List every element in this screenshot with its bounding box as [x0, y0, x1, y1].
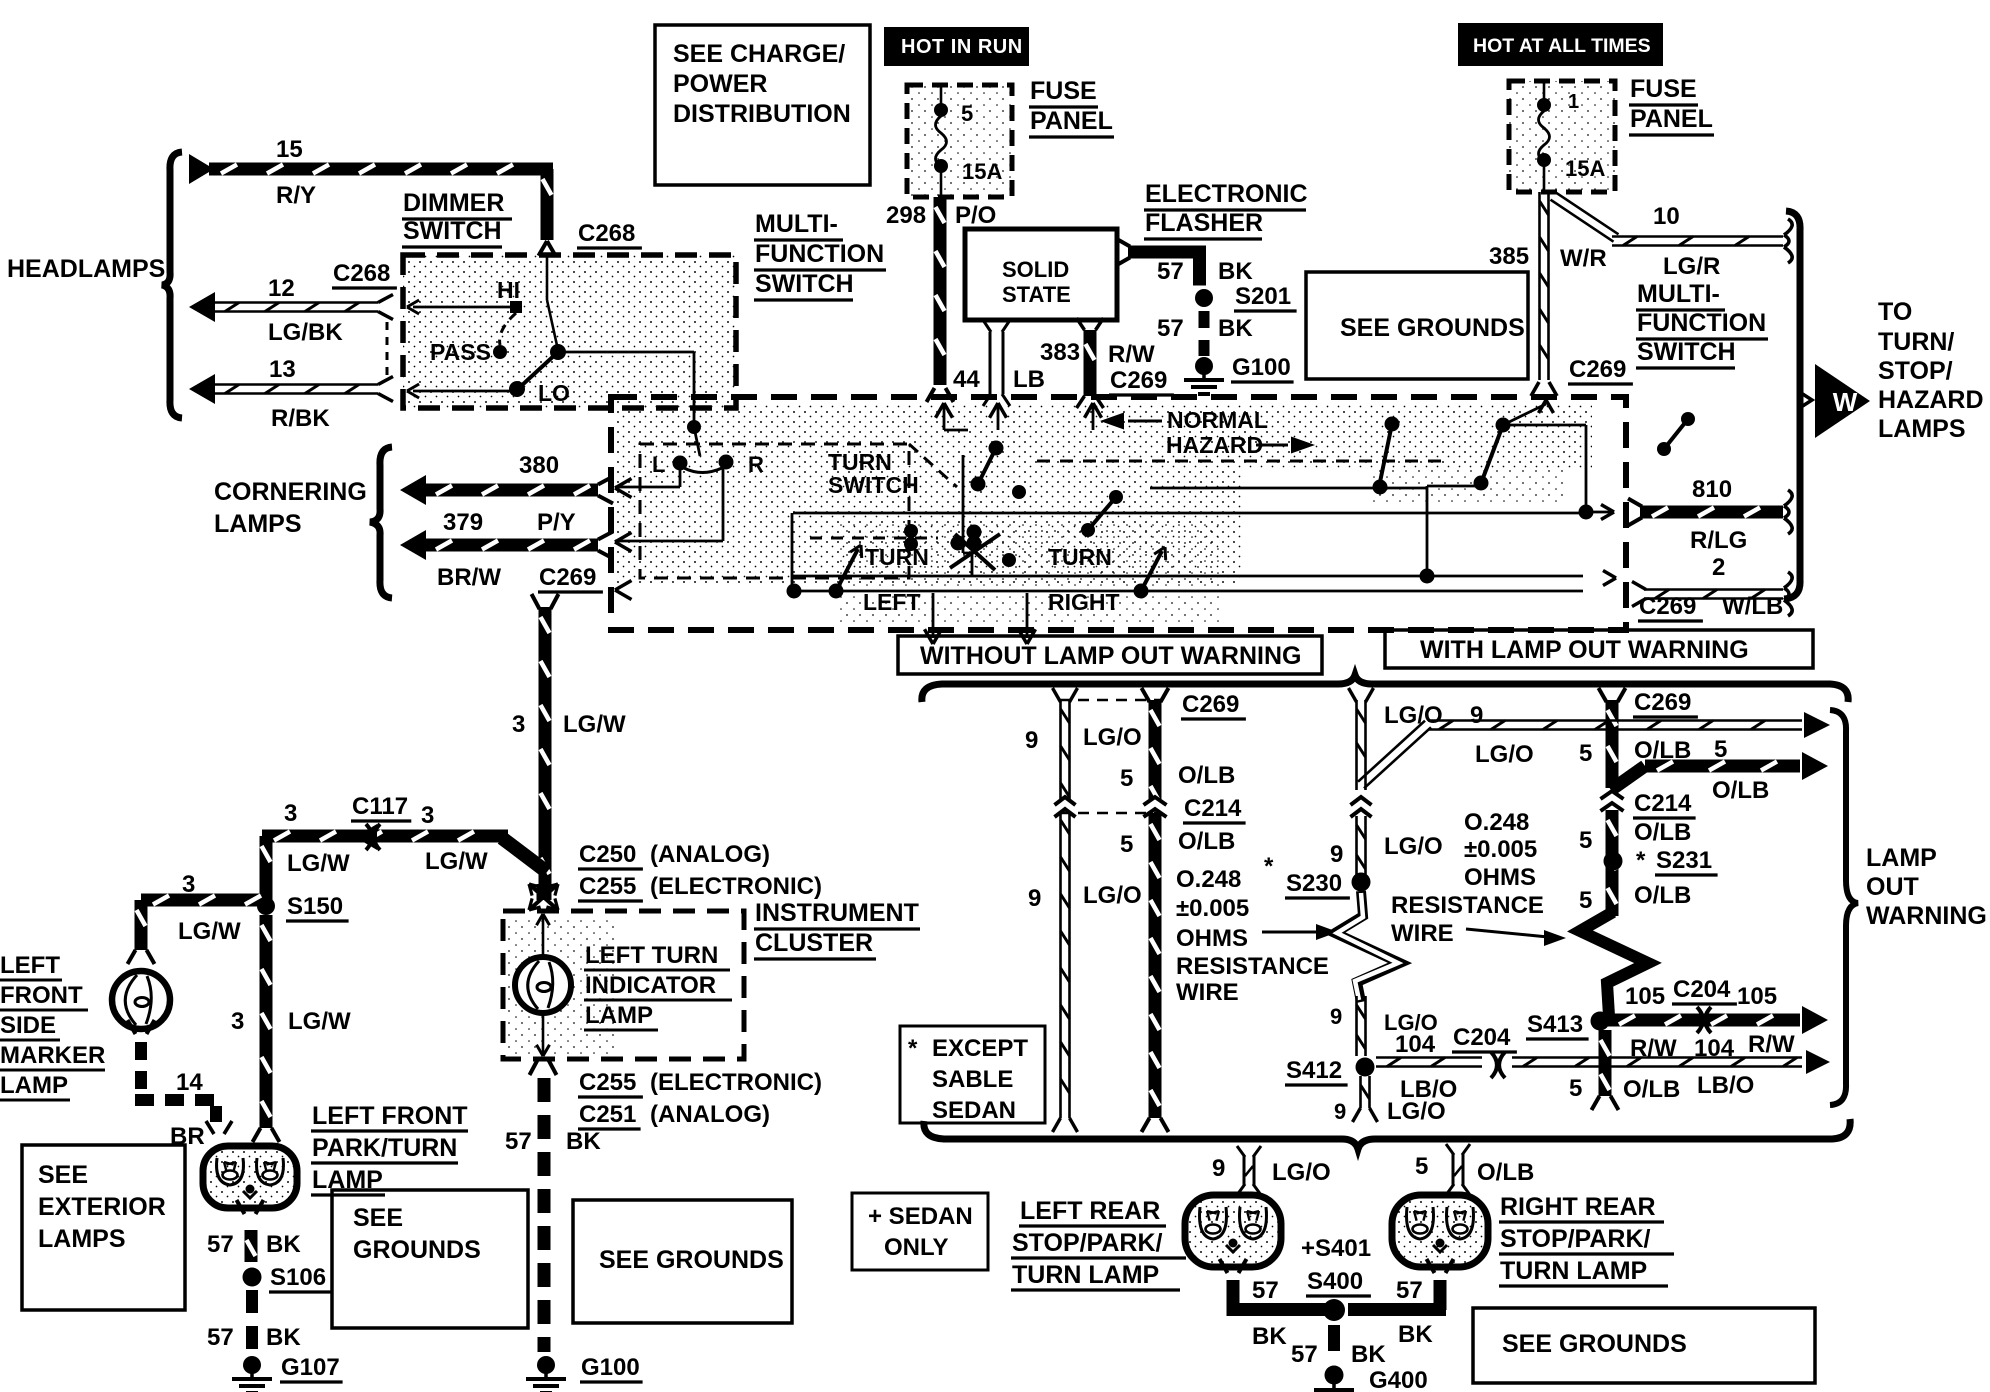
svg-text:380: 380: [519, 452, 559, 479]
svg-text:1: 1: [1568, 91, 1579, 113]
svg-text:SEE GROUNDS: SEE GROUNDS: [1340, 314, 1525, 342]
svg-text:LEFT TURN: LEFT TURN: [585, 942, 718, 969]
svg-text:C268: C268: [578, 220, 635, 247]
svg-text:9: 9: [1330, 1004, 1342, 1029]
svg-text:RESISTANCE: RESISTANCE: [1176, 953, 1329, 980]
svg-text:383: 383: [1040, 339, 1080, 366]
svg-text:5: 5: [1714, 736, 1727, 763]
svg-text:W/R: W/R: [1560, 245, 1607, 272]
svg-text:HOT AT ALL TIMES: HOT AT ALL TIMES: [1473, 35, 1651, 57]
svg-text:S201: S201: [1235, 283, 1291, 310]
svg-text:LG/O: LG/O: [1083, 882, 1142, 909]
svg-text:MARKER: MARKER: [0, 1042, 105, 1069]
svg-text:15A: 15A: [1565, 156, 1605, 181]
svg-text:LG/W: LG/W: [288, 1008, 351, 1035]
svg-text:5: 5: [1120, 831, 1133, 858]
svg-text:HEADLAMPS: HEADLAMPS: [7, 255, 165, 283]
svg-text:LEFT REAR: LEFT REAR: [1020, 1197, 1160, 1225]
svg-text:FUSE: FUSE: [1630, 75, 1697, 103]
svg-text:O.248: O.248: [1464, 809, 1529, 836]
svg-text:+S401: +S401: [1301, 1235, 1371, 1262]
svg-text:9: 9: [1470, 702, 1483, 729]
svg-text:FUSE: FUSE: [1030, 77, 1097, 105]
svg-text:5: 5: [1120, 765, 1133, 792]
svg-text:*: *: [908, 1035, 918, 1062]
svg-text:C204: C204: [1673, 976, 1731, 1003]
svg-text:LG/W: LG/W: [563, 711, 626, 738]
svg-text:C255: C255: [579, 1069, 636, 1096]
svg-text:9: 9: [1330, 841, 1343, 868]
svg-text:INDICATOR: INDICATOR: [585, 972, 716, 999]
svg-text:FRONT: FRONT: [0, 982, 83, 1009]
svg-text:STATE: STATE: [1002, 282, 1071, 307]
svg-text:385: 385: [1489, 243, 1529, 270]
svg-text:LG/W: LG/W: [425, 848, 488, 875]
svg-text:LEFT: LEFT: [863, 589, 921, 615]
svg-text:PANEL: PANEL: [1630, 105, 1713, 133]
svg-text:LG/O: LG/O: [1387, 1098, 1446, 1125]
svg-text:LG/R: LG/R: [1663, 253, 1720, 280]
svg-text:HAZARD: HAZARD: [1166, 432, 1263, 458]
svg-text:SABLE: SABLE: [932, 1066, 1013, 1093]
svg-text:SEE: SEE: [353, 1204, 403, 1232]
svg-text:57: 57: [1252, 1277, 1279, 1304]
svg-text:ONLY: ONLY: [884, 1234, 948, 1261]
svg-text:TO: TO: [1878, 298, 1912, 326]
svg-text:LG/O: LG/O: [1272, 1159, 1331, 1186]
svg-text:SOLID: SOLID: [1002, 257, 1069, 282]
svg-text:C250: C250: [579, 841, 636, 868]
svg-text:P/O: P/O: [955, 202, 996, 229]
svg-text:10: 10: [1653, 203, 1680, 230]
svg-text:105: 105: [1737, 983, 1777, 1010]
svg-text:MULTI-: MULTI-: [1637, 280, 1720, 308]
svg-text:BR/W: BR/W: [437, 564, 501, 591]
svg-text:BK: BK: [566, 1128, 601, 1155]
svg-text:BK: BK: [1252, 1323, 1287, 1350]
svg-text:12: 12: [268, 275, 295, 302]
svg-text:S231: S231: [1656, 847, 1712, 874]
svg-text:LAMPS: LAMPS: [214, 510, 302, 538]
svg-text:BK: BK: [1351, 1341, 1386, 1368]
svg-text:TURN: TURN: [865, 544, 929, 570]
svg-text:57: 57: [1157, 258, 1184, 285]
svg-text:LAMPS: LAMPS: [1878, 415, 1966, 443]
svg-text:WITH LAMP OUT WARNING: WITH LAMP OUT WARNING: [1420, 636, 1749, 664]
svg-text:PASS: PASS: [430, 339, 491, 365]
svg-text:SWITCH: SWITCH: [1637, 338, 1736, 366]
svg-text:9: 9: [1025, 727, 1038, 754]
svg-text:57: 57: [1396, 1277, 1423, 1304]
svg-text:*: *: [1636, 847, 1646, 874]
svg-text:DISTRIBUTION: DISTRIBUTION: [673, 100, 851, 128]
svg-text:RIGHT: RIGHT: [1048, 589, 1120, 615]
svg-text:±0.005: ±0.005: [1464, 836, 1537, 863]
svg-text:TURN: TURN: [1048, 544, 1112, 570]
svg-text:STOP/PARK/: STOP/PARK/: [1012, 1229, 1163, 1257]
svg-text:57: 57: [1157, 315, 1184, 342]
svg-text:R/W: R/W: [1748, 1031, 1795, 1058]
svg-text:C269: C269: [1569, 356, 1626, 383]
svg-text:57: 57: [1291, 1341, 1318, 1368]
svg-text:C269: C269: [1110, 367, 1167, 394]
svg-text:S230: S230: [1286, 870, 1342, 897]
svg-text:LB: LB: [1013, 366, 1045, 393]
svg-text:5: 5: [1569, 1075, 1582, 1102]
svg-text:57: 57: [207, 1324, 234, 1351]
svg-text:OUT: OUT: [1866, 873, 1919, 901]
svg-text:LAMP: LAMP: [1866, 844, 1937, 872]
svg-text:44: 44: [953, 366, 980, 393]
svg-text:STOP/: STOP/: [1878, 357, 1953, 385]
svg-text:2: 2: [1712, 554, 1725, 581]
svg-text:104: 104: [1395, 1031, 1436, 1058]
svg-text:RESISTANCE: RESISTANCE: [1391, 892, 1544, 919]
svg-text:R/LG: R/LG: [1690, 527, 1747, 554]
svg-text:OHMS: OHMS: [1176, 925, 1248, 952]
svg-text:LG/O: LG/O: [1384, 833, 1443, 860]
svg-text:R/W: R/W: [1630, 1035, 1677, 1062]
svg-text:O/LB: O/LB: [1623, 1076, 1680, 1103]
svg-text:BK: BK: [1218, 315, 1253, 342]
svg-text:5: 5: [1579, 827, 1592, 854]
svg-text:EXTERIOR: EXTERIOR: [38, 1193, 166, 1221]
svg-text:LEFT FRONT: LEFT FRONT: [312, 1102, 468, 1130]
svg-text:(ELECTRONIC): (ELECTRONIC): [650, 1069, 822, 1096]
svg-text:SWITCH: SWITCH: [828, 472, 919, 498]
svg-text:FLASHER: FLASHER: [1145, 209, 1263, 237]
svg-text:S150: S150: [287, 893, 343, 920]
svg-text:R/BK: R/BK: [271, 405, 330, 432]
svg-text:LG/W: LG/W: [178, 918, 241, 945]
svg-text:L: L: [652, 452, 665, 477]
svg-text:LG/O: LG/O: [1475, 741, 1534, 768]
svg-text:5: 5: [1579, 740, 1592, 767]
svg-text:BK: BK: [266, 1324, 301, 1351]
svg-text:SEE GROUNDS: SEE GROUNDS: [599, 1246, 784, 1274]
svg-text:POWER: POWER: [673, 70, 767, 98]
svg-text:GROUNDS: GROUNDS: [353, 1236, 481, 1264]
svg-text:DIMMER: DIMMER: [403, 189, 504, 217]
svg-text:5: 5: [1579, 887, 1592, 914]
svg-text:LEFT: LEFT: [0, 952, 60, 979]
svg-text:3: 3: [421, 802, 434, 829]
svg-text:+ SEDAN: + SEDAN: [868, 1203, 973, 1230]
svg-text:3: 3: [231, 1008, 244, 1035]
svg-text:NORMAL: NORMAL: [1167, 407, 1268, 433]
svg-text:FUNCTION: FUNCTION: [1637, 309, 1766, 337]
svg-text:O/LB: O/LB: [1178, 762, 1235, 789]
svg-text:TURN LAMP: TURN LAMP: [1012, 1261, 1159, 1289]
svg-text:TURN/: TURN/: [1878, 328, 1954, 356]
svg-text:SWITCH: SWITCH: [403, 217, 502, 245]
svg-text:LAMP: LAMP: [0, 1072, 68, 1099]
svg-text:EXCEPT: EXCEPT: [932, 1035, 1028, 1062]
svg-text:C117: C117: [352, 793, 408, 820]
svg-text:(ANALOG): (ANALOG): [650, 841, 770, 868]
svg-text:BK: BK: [1398, 1321, 1433, 1348]
svg-text:INSTRUMENT: INSTRUMENT: [755, 899, 919, 927]
svg-text:BK: BK: [266, 1231, 301, 1258]
svg-text:RIGHT REAR: RIGHT REAR: [1500, 1193, 1656, 1221]
svg-text:OHMS: OHMS: [1464, 864, 1536, 891]
svg-text:C268: C268: [333, 260, 390, 287]
svg-text:W/LB: W/LB: [1722, 593, 1783, 620]
svg-text:CLUSTER: CLUSTER: [755, 929, 873, 957]
svg-text:LB/O: LB/O: [1697, 1072, 1754, 1099]
svg-text:9: 9: [1334, 1099, 1346, 1124]
svg-text:HI: HI: [497, 277, 520, 303]
svg-text:SEE CHARGE/: SEE CHARGE/: [673, 40, 845, 68]
svg-text:C269: C269: [1634, 689, 1691, 716]
svg-text:WIRE: WIRE: [1176, 979, 1239, 1006]
svg-text:57: 57: [505, 1128, 532, 1155]
svg-text:LG/BK: LG/BK: [268, 319, 343, 346]
svg-text:SEE GROUNDS: SEE GROUNDS: [1502, 1330, 1687, 1358]
svg-text:R: R: [748, 452, 764, 477]
svg-text:W: W: [1833, 387, 1858, 417]
svg-text:R/Y: R/Y: [276, 182, 316, 209]
svg-text:HAZARD: HAZARD: [1878, 386, 1984, 414]
svg-text:WIRE: WIRE: [1391, 920, 1454, 947]
svg-text:S413: S413: [1527, 1011, 1583, 1038]
svg-text:O/LB: O/LB: [1634, 819, 1691, 846]
svg-text:STOP/PARK/: STOP/PARK/: [1500, 1225, 1651, 1253]
svg-text:LG/O: LG/O: [1083, 724, 1142, 751]
svg-text:C214: C214: [1184, 795, 1242, 822]
svg-text:LG/O: LG/O: [1384, 702, 1443, 729]
svg-text:O/LB: O/LB: [1634, 882, 1691, 909]
svg-text:TURN LAMP: TURN LAMP: [1500, 1257, 1647, 1285]
svg-text:SIDE: SIDE: [0, 1012, 56, 1039]
svg-text:R/W: R/W: [1108, 341, 1155, 368]
svg-text:298: 298: [886, 202, 926, 229]
svg-text:5: 5: [961, 101, 973, 126]
svg-text:5: 5: [1415, 1153, 1428, 1180]
svg-text:CORNERING: CORNERING: [214, 478, 367, 506]
svg-text:3: 3: [512, 711, 525, 738]
svg-text:15A: 15A: [962, 159, 1002, 184]
svg-text:G100: G100: [1232, 354, 1291, 381]
svg-text:SEE: SEE: [38, 1161, 88, 1189]
svg-text:S412: S412: [1286, 1057, 1342, 1084]
svg-text:ELECTRONIC: ELECTRONIC: [1145, 180, 1308, 208]
svg-text:57: 57: [207, 1231, 234, 1258]
svg-text:O/LB: O/LB: [1178, 828, 1235, 855]
svg-text:S400: S400: [1307, 1268, 1363, 1295]
svg-text:810: 810: [1692, 476, 1732, 503]
svg-text:G100: G100: [581, 1354, 640, 1381]
svg-text:104: 104: [1694, 1035, 1735, 1062]
svg-text:±0.005: ±0.005: [1176, 895, 1249, 922]
svg-text:3: 3: [284, 800, 297, 827]
svg-text:WARNING: WARNING: [1866, 902, 1987, 930]
svg-text:13: 13: [269, 356, 296, 383]
svg-text:BK: BK: [1218, 258, 1253, 285]
svg-text:(ELECTRONIC): (ELECTRONIC): [650, 873, 822, 900]
svg-text:LAMPS: LAMPS: [38, 1225, 126, 1253]
svg-text:G107: G107: [281, 1354, 340, 1381]
svg-text:HOT IN RUN: HOT IN RUN: [901, 36, 1023, 58]
svg-text:WITHOUT LAMP OUT WARNING: WITHOUT LAMP OUT WARNING: [920, 642, 1301, 670]
svg-text:C251: C251: [579, 1101, 636, 1128]
svg-text:3: 3: [182, 871, 195, 898]
svg-text:105: 105: [1625, 983, 1665, 1010]
svg-text:LAMP: LAMP: [585, 1002, 653, 1029]
svg-text:*: *: [1264, 853, 1274, 880]
svg-text:PANEL: PANEL: [1030, 107, 1113, 135]
svg-text:C269: C269: [539, 564, 596, 591]
svg-text:P/Y: P/Y: [537, 509, 576, 536]
svg-text:O.248: O.248: [1176, 866, 1241, 893]
svg-text:379: 379: [443, 509, 483, 536]
svg-text:C269: C269: [1182, 691, 1239, 718]
svg-text:SEDAN: SEDAN: [932, 1097, 1016, 1124]
svg-text:9: 9: [1028, 885, 1041, 912]
svg-text:LG/W: LG/W: [287, 850, 350, 877]
svg-text:C255: C255: [579, 873, 636, 900]
svg-text:(ANALOG): (ANALOG): [650, 1101, 770, 1128]
svg-text:9: 9: [1212, 1155, 1225, 1182]
svg-text:C214: C214: [1634, 790, 1692, 817]
svg-text:LO: LO: [538, 380, 570, 406]
svg-text:C204: C204: [1453, 1024, 1511, 1051]
svg-text:S106: S106: [270, 1264, 326, 1291]
svg-text:15: 15: [276, 136, 303, 163]
svg-text:G400: G400: [1369, 1367, 1428, 1392]
svg-text:O/LB: O/LB: [1477, 1159, 1534, 1186]
svg-text:SWITCH: SWITCH: [755, 270, 854, 298]
svg-text:PARK/TURN: PARK/TURN: [312, 1134, 457, 1162]
svg-text:O/LB: O/LB: [1712, 777, 1769, 804]
svg-text:14: 14: [176, 1069, 203, 1096]
svg-text:MULTI-: MULTI-: [755, 210, 838, 238]
svg-text:C269: C269: [1639, 593, 1696, 620]
svg-text:FUNCTION: FUNCTION: [755, 240, 884, 268]
